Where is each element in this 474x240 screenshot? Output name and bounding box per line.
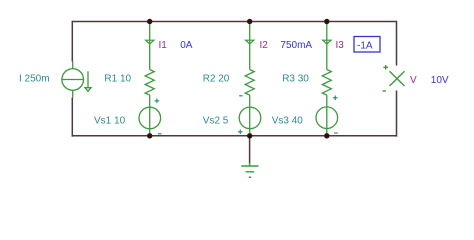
wire ground stem	[249, 136, 251, 164]
ground	[241, 163, 258, 178]
ammeter I2 arrow	[246, 40, 254, 44]
resistor R2	[245, 70, 254, 96]
svg-text:V: V	[410, 75, 417, 86]
svg-text:0A: 0A	[180, 40, 193, 51]
branch 1 lower pin wire	[149, 95, 151, 136]
wire bottom bus	[72, 135, 396, 137]
svg-text:Vs2 5: Vs2 5	[203, 116, 229, 127]
junction node bottom 1	[147, 133, 152, 138]
svg-text:I1: I1	[159, 40, 168, 51]
wire right branch upper	[396, 21, 398, 66]
svg-text:R1 10: R1 10	[104, 74, 131, 85]
value box -1A	[354, 37, 380, 53]
branch 1 pin wire	[149, 22, 151, 70]
branch 3 pin wire	[326, 22, 328, 70]
svg-text:750mA: 750mA	[280, 40, 312, 51]
wire left branch lower	[71, 98, 73, 137]
junction node top 3	[324, 19, 329, 24]
branch 2 pin wire	[249, 22, 251, 70]
junction node bottom 2	[247, 133, 252, 138]
current source IS1	[62, 61, 91, 98]
svg-text:I2: I2	[260, 40, 269, 51]
svg-text:Vs3 40: Vs3 40	[272, 116, 304, 127]
junction node top 2	[247, 19, 252, 24]
svg-text:R3 30: R3 30	[282, 74, 309, 85]
branch 2 lower pin wire	[249, 95, 251, 136]
svg-text:-1A: -1A	[357, 41, 373, 52]
voltmeter V	[383, 65, 405, 91]
junction node bottom 3	[324, 133, 329, 138]
wire left branch upper	[71, 21, 73, 62]
ammeter I1 arrow	[146, 40, 154, 44]
voltage source Vs1	[155, 99, 162, 134]
voltage source Vs3	[333, 96, 338, 134]
svg-text:I3: I3	[336, 40, 345, 51]
wire top bus	[72, 21, 396, 23]
svg-text:10V: 10V	[431, 75, 449, 86]
svg-text:R2 20: R2 20	[203, 74, 230, 85]
ammeter I3 arrow	[323, 40, 331, 44]
branch 3 lower pin wire	[326, 95, 328, 136]
wire right branch lower	[396, 91, 398, 137]
resistor R3	[322, 70, 331, 96]
svg-text:Vs1 10: Vs1 10	[94, 116, 126, 127]
junction node top 1	[147, 19, 152, 24]
resistor R1	[145, 70, 154, 96]
svg-text:I 250m: I 250m	[19, 74, 50, 85]
voltage source Vs2	[238, 96, 243, 134]
